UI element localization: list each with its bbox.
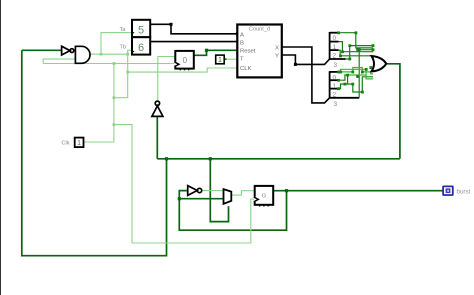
inverter U5 (north, to FF1 D) [152, 101, 163, 116]
junction dots pale [100, 53, 130, 126]
wire FF2 Q to output pin [273, 190, 443, 192]
wire constant 1 to counter T [224, 58, 237, 60]
junction dots dark [165, 49, 288, 201]
svg-text:3: 3 [334, 62, 338, 69]
wire S2 bit3 long [359, 50, 373, 98]
wire AND lower input [43, 59, 75, 63]
OR gate U6 [372, 56, 387, 71]
svg-text:0: 0 [183, 56, 188, 65]
flip-flop U9 (FF2) [254, 186, 274, 207]
wire left rail vertical [22, 50, 167, 255]
wire mux select [210, 159, 228, 222]
svg-text:X: X [275, 45, 279, 51]
svg-text:CLK: CLK [240, 66, 252, 72]
wire S1 bit1 [339, 42, 374, 52]
output pin burst [443, 186, 470, 195]
wire S2 bit2 [341, 69, 374, 79]
wire S2 extra [348, 74, 367, 76]
flip-flop U4 (FF1) [174, 51, 194, 70]
wire S1 bit2 [339, 50, 374, 56]
wire OR output [386, 64, 400, 159]
canvas left border [0, 0, 2, 295]
svg-text:Reset: Reset [240, 49, 256, 55]
svg-text:T: T [240, 57, 244, 63]
black wire corner blobs [170, 23, 297, 66]
svg-text:0: 0 [333, 35, 337, 42]
AND gate U3 [75, 46, 90, 63]
inverter U2 (west, feeds AND) [62, 46, 74, 55]
probe Tb (value 6) [120, 37, 151, 54]
constant C1 (value 1) [216, 55, 225, 64]
svg-text:Clk: Clk [62, 141, 70, 147]
mesh junction dots [337, 31, 374, 93]
svg-text:1: 1 [333, 44, 337, 51]
wire counter Y to splitter S1 [282, 55, 330, 64]
svg-text:1: 1 [218, 57, 222, 64]
wire Tb stub [128, 50, 132, 54]
svg-text:3: 3 [334, 101, 338, 108]
wire AND output to Ta/Tb junction [89, 53, 128, 55]
wire N1 vertical x128 [114, 54, 128, 97]
svg-text:o: o [262, 190, 266, 199]
wire Clk pin vertical [84, 64, 114, 143]
wire NOT-north output to FF1 D [158, 57, 176, 101]
wire Ta branch [101, 33, 131, 55]
svg-text:B: B [240, 40, 244, 46]
svg-text:6: 6 [138, 42, 144, 54]
inverter U7 (east, bottom circuit) [188, 186, 202, 196]
wire OR rail [157, 158, 400, 160]
wire NOT-east output to mux in0 [202, 190, 223, 192]
wire probe6 to counter B [150, 41, 237, 43]
wire FF1 Q to counter Reset [194, 50, 238, 55]
wire NOT-west input [22, 49, 62, 51]
svg-text:Tb: Tb [120, 44, 127, 50]
svg-text:burst: burst [457, 189, 471, 196]
wire FF2 Q feedback down [179, 191, 286, 231]
multiplexer U8 [224, 189, 232, 204]
svg-text:1: 1 [77, 140, 81, 147]
wire S2 bit1 [339, 75, 374, 92]
wire counter CLK branch [128, 68, 238, 72]
wire mux output to FF2 D [231, 191, 254, 195]
svg-text:2: 2 [333, 52, 337, 59]
wire S2 bit0 [339, 68, 374, 74]
wire FF2 clock branch [114, 125, 255, 243]
input pin Clk [62, 138, 84, 148]
svg-text:1: 1 [333, 83, 337, 90]
wire NOT-north input [156, 116, 158, 159]
wire feedback to mux input1 [179, 198, 223, 200]
probe Ta (value 5) [120, 20, 151, 37]
wire FF1 clock line [43, 63, 175, 65]
svg-text:2: 2 [333, 92, 337, 99]
svg-text:Count_d: Count_d [249, 27, 270, 33]
wire probe5 to counter A [150, 24, 237, 34]
svg-text:5: 5 [138, 25, 144, 37]
wire counter X to splitter S2 [282, 47, 330, 103]
svg-text:0: 0 [333, 74, 337, 81]
wire S1 bit0 [339, 33, 373, 48]
svg-text:Ta: Ta [120, 27, 127, 33]
svg-text:A: A [240, 32, 244, 38]
wire S2 bit2b [339, 84, 348, 89]
svg-text:Y: Y [275, 53, 279, 59]
wire S1 bit3 [346, 46, 373, 59]
counter U1 [237, 25, 281, 78]
